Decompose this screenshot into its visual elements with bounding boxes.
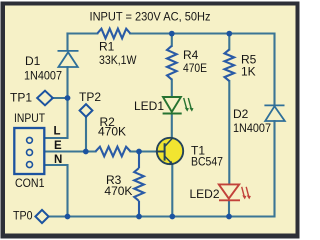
svg-text:TP2: TP2: [79, 90, 101, 104]
svg-text:R1: R1: [99, 39, 115, 53]
svg-text:CON1: CON1: [15, 176, 45, 190]
svg-text:470K: 470K: [104, 184, 132, 198]
svg-text:1N4007: 1N4007: [233, 121, 271, 135]
svg-text:E: E: [54, 140, 62, 152]
svg-text:TP0: TP0: [13, 209, 33, 223]
svg-text:D1: D1: [25, 54, 41, 68]
svg-text:D2: D2: [233, 107, 249, 121]
svg-text:TP1: TP1: [10, 91, 32, 105]
svg-text:1N4007: 1N4007: [24, 68, 62, 82]
svg-text:R4: R4: [183, 48, 199, 62]
svg-text:1K: 1K: [241, 64, 256, 78]
svg-text:LED1: LED1: [134, 99, 164, 113]
svg-text:INPUT: INPUT: [14, 111, 46, 125]
svg-text:LED2: LED2: [190, 187, 220, 201]
svg-text:470E: 470E: [183, 61, 207, 75]
svg-text:33K,1W: 33K,1W: [99, 53, 137, 67]
svg-text:N: N: [54, 154, 62, 166]
svg-text:BC547: BC547: [191, 154, 223, 168]
svg-text:L: L: [54, 125, 61, 137]
svg-text:470K: 470K: [98, 124, 126, 138]
svg-text:INPUT = 230V AC, 50Hz: INPUT = 230V AC, 50Hz: [90, 10, 211, 24]
